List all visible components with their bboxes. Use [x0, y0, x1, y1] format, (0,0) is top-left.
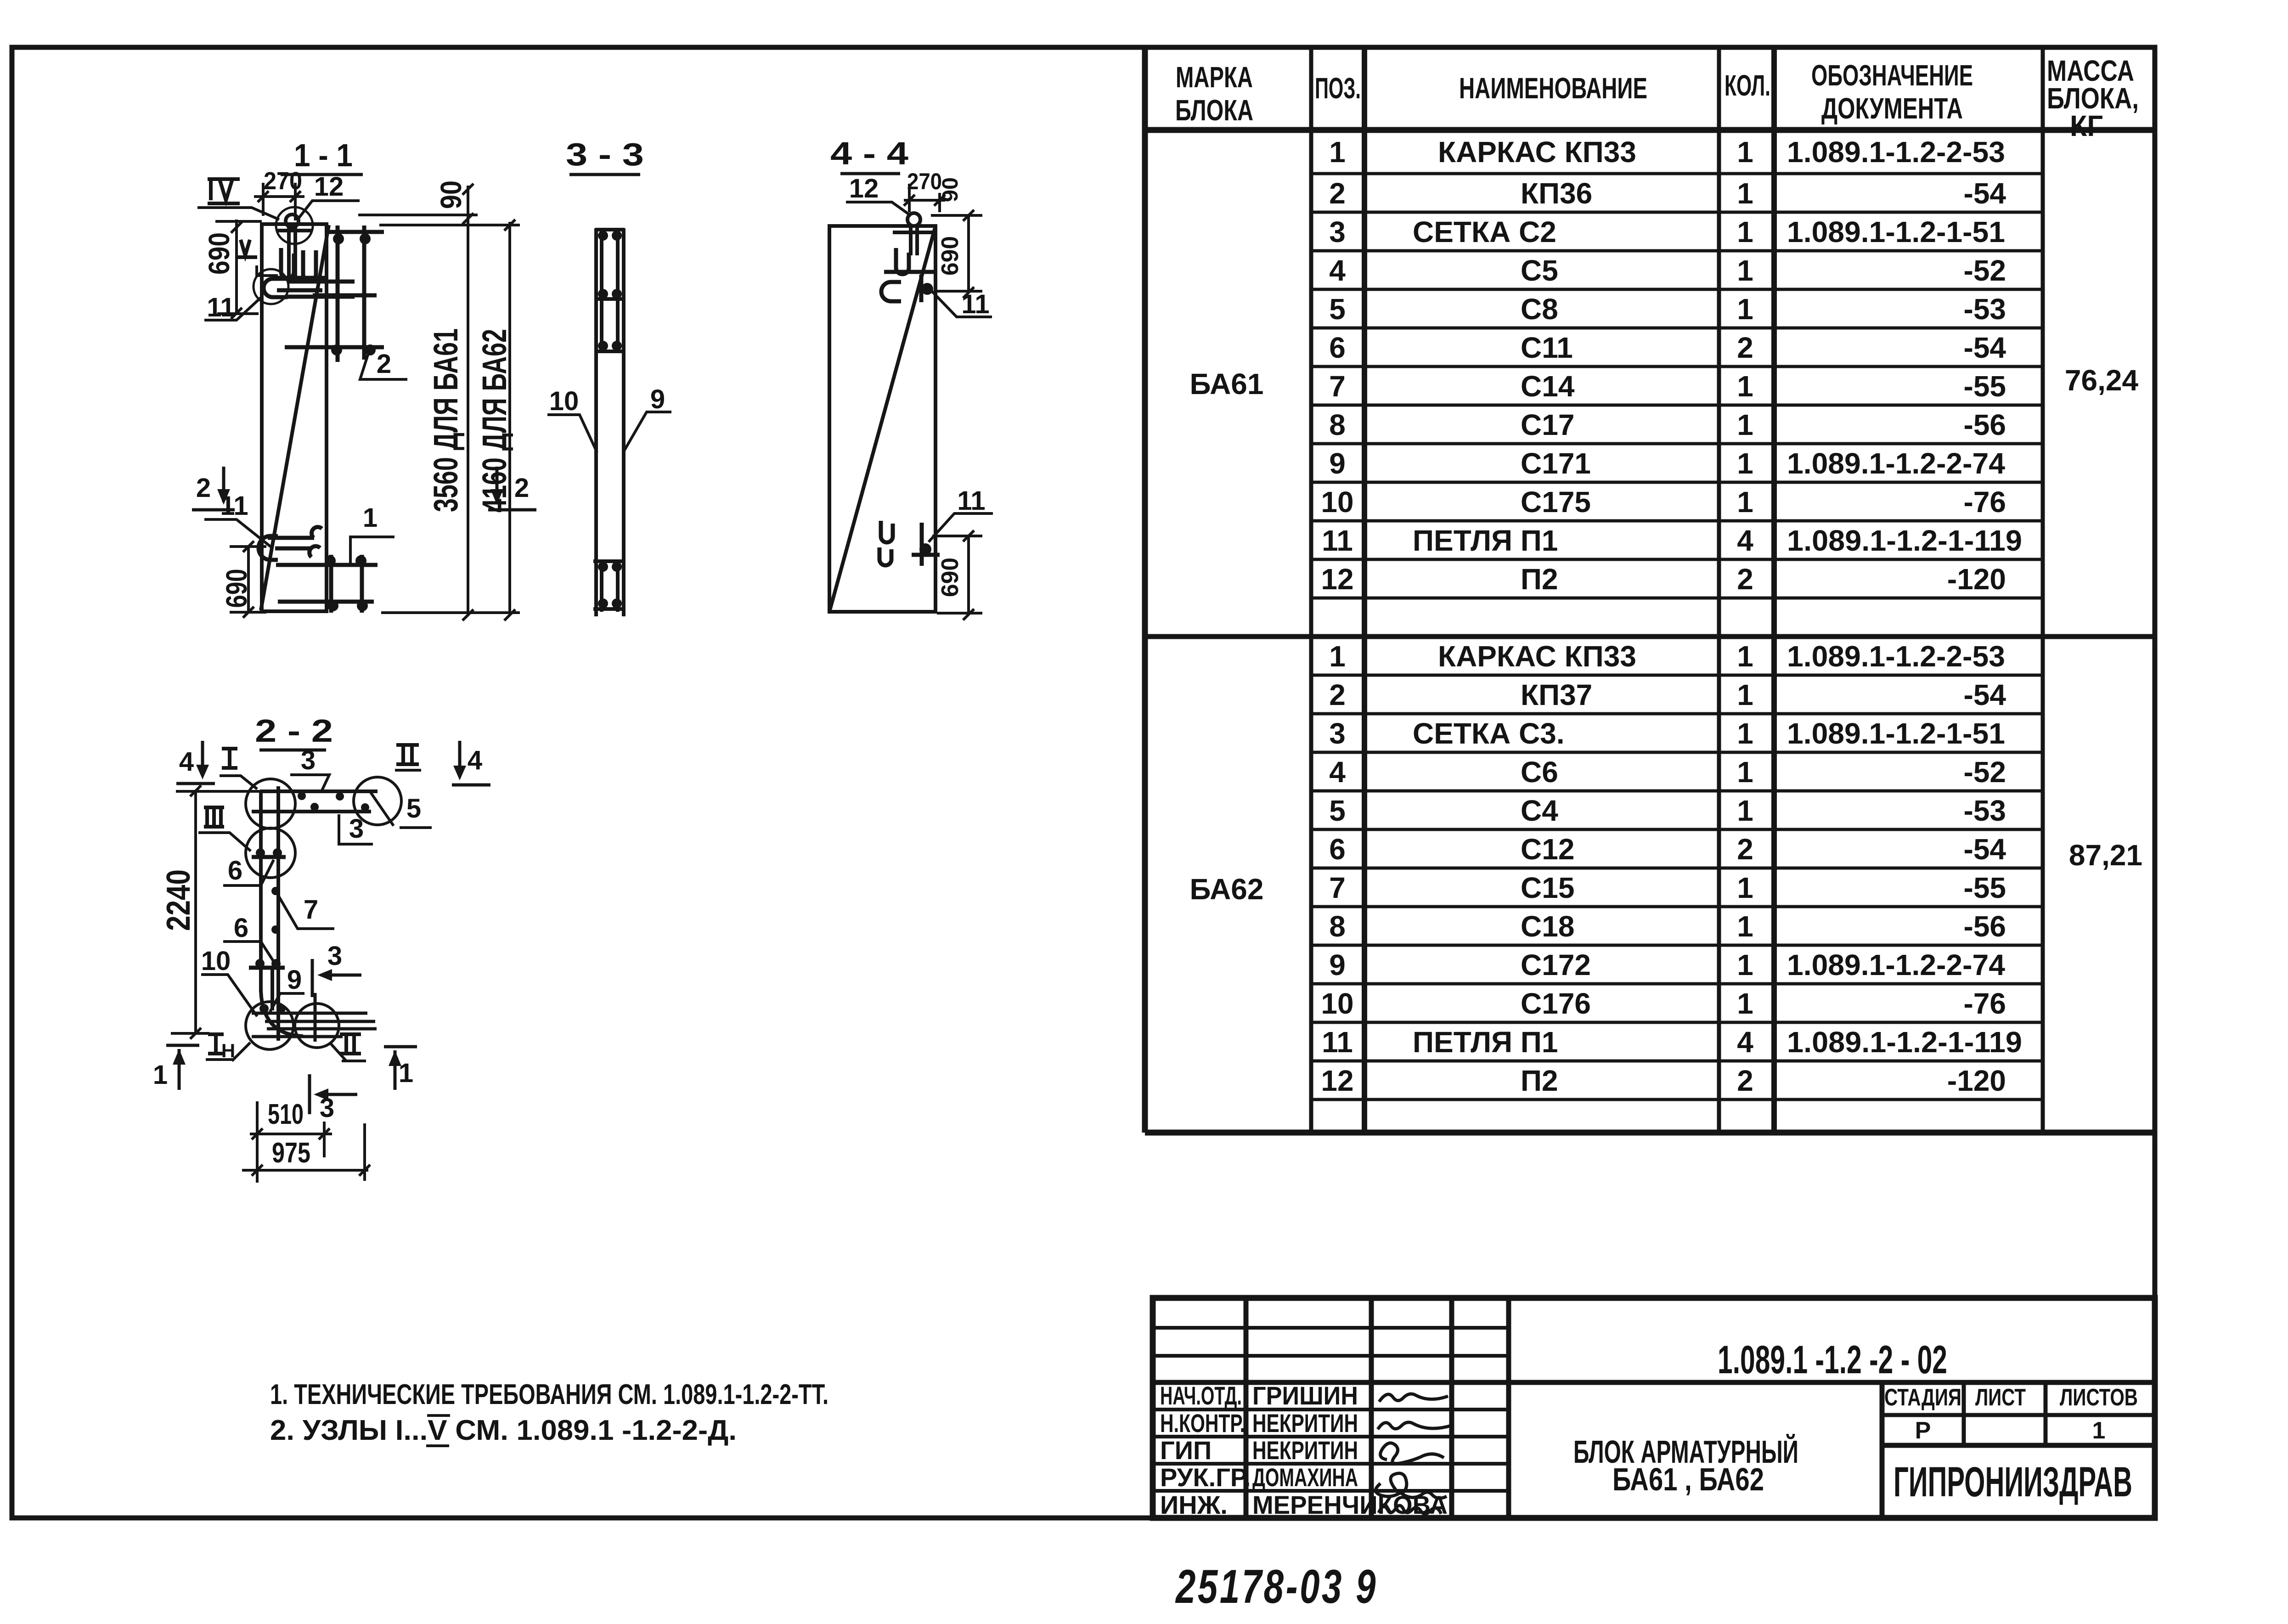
svg-text:ПЕТЛЯ П1: ПЕТЛЯ П1 [1413, 524, 1558, 557]
rebar carcass (lower) [268, 538, 378, 613]
svg-text:4: 4 [468, 745, 482, 775]
svg-text:975: 975 [272, 1137, 310, 1169]
svg-text:1: 1 [1737, 447, 1753, 480]
svg-text:1: 1 [1737, 135, 1753, 169]
svg-text:11: 11 [207, 293, 235, 322]
svg-text:ПЕТЛЯ П1: ПЕТЛЯ П1 [1413, 1026, 1558, 1059]
svg-text:БА61: БА61 [1190, 367, 1264, 400]
svg-text:1: 1 [1737, 177, 1753, 210]
bottom flange mesh lines [252, 993, 377, 1042]
web wire dots [271, 887, 280, 934]
svg-text:10: 10 [1321, 987, 1353, 1020]
svg-text:2: 2 [1737, 1064, 1753, 1097]
top flange outline [252, 786, 378, 1041]
svg-text:6: 6 [234, 913, 248, 943]
svg-text:1: 1 [153, 1060, 168, 1090]
svg-text:3: 3 [1329, 717, 1346, 750]
svg-text:1: 1 [2092, 1417, 2106, 1444]
svg-text:КП37: КП37 [1521, 678, 1592, 711]
label IV [208, 179, 240, 203]
svg-text:-54: -54 [1964, 678, 2006, 711]
svg-text:-120: -120 [1947, 563, 2006, 596]
svg-text:6: 6 [1329, 331, 1346, 364]
svg-text:6: 6 [1329, 833, 1346, 866]
svg-text:11: 11 [1322, 1026, 1353, 1059]
svg-text:1.089.1-1.2-2-74: 1.089.1-1.2-2-74 [1787, 948, 2005, 981]
svg-text:1: 1 [1737, 678, 1753, 711]
svg-text:12: 12 [1321, 1064, 1353, 1097]
svg-text:90: 90 [434, 180, 468, 209]
label V [237, 240, 257, 257]
panel diagonal [261, 225, 329, 610]
svg-text:2 - 2: 2 - 2 [255, 713, 333, 749]
svg-text:С6: С6 [1521, 756, 1558, 789]
detail circles [246, 777, 401, 1049]
title block text [1160, 1381, 1448, 1519]
svg-text:КАРКАС КП33: КАРКАС КП33 [1438, 640, 1636, 673]
svg-text:12: 12 [1321, 563, 1353, 596]
block labels and masses [1190, 364, 2143, 906]
detail circle pos11 [254, 269, 288, 304]
svg-text:2: 2 [377, 349, 391, 379]
svg-text:С14: С14 [1521, 370, 1575, 403]
svg-text:8: 8 [1329, 408, 1346, 441]
flange rebar dots [298, 792, 369, 812]
svg-text:ОБОЗНАЧЕНИЕ: ОБОЗНАЧЕНИЕ [1811, 59, 1973, 92]
svg-text:-54: -54 [1964, 177, 2006, 210]
svg-text:1: 1 [1737, 948, 1753, 981]
svg-text:-54: -54 [1964, 331, 2006, 364]
svg-text:ИНЖ.: ИНЖ. [1160, 1490, 1228, 1519]
svg-text:С172: С172 [1521, 948, 1591, 981]
label III [204, 807, 224, 827]
svg-text:-76: -76 [1964, 485, 2006, 519]
svg-text:-55: -55 [1964, 370, 2006, 403]
svg-text:КГ: КГ [2070, 109, 2103, 142]
svg-text:4: 4 [1329, 254, 1346, 287]
svg-text:СТАДИЯ: СТАДИЯ [1884, 1384, 1961, 1411]
svg-text:РУК.ГР.: РУК.ГР. [1160, 1463, 1251, 1492]
svg-text:ГИПРОНИИЗДРАВ: ГИПРОНИИЗДРАВ [1894, 1459, 2132, 1506]
svg-text:НАИМЕНОВАНИЕ: НАИМЕНОВАНИЕ [1459, 72, 1647, 105]
svg-text:Н.КОНТР.: Н.КОНТР. [1160, 1409, 1245, 1438]
svg-text:С5: С5 [1521, 254, 1558, 287]
svg-text:П2: П2 [1521, 1064, 1558, 1097]
svg-text:1: 1 [1737, 756, 1753, 789]
svg-text:9: 9 [1329, 447, 1346, 480]
svg-text:1.089.1-1.2-2-53: 1.089.1-1.2-2-53 [1787, 135, 2005, 169]
svg-text:3560 ДЛЯ БА61: 3560 ДЛЯ БА61 [427, 328, 465, 512]
stage/sheet header [1884, 1384, 2138, 1444]
svg-text:КАРКАС КП33: КАРКАС КП33 [1438, 135, 1636, 169]
svg-text:3: 3 [1329, 215, 1346, 248]
svg-text:-76: -76 [1964, 987, 2006, 1020]
svg-text:2: 2 [514, 473, 529, 503]
svg-text:ПОЗ.: ПОЗ. [1315, 72, 1361, 105]
label I top [222, 749, 237, 768]
svg-text:10: 10 [549, 386, 579, 416]
svg-text:1. ТЕХНИЧЕСКИЕ ТРЕБОВАНИЯ СМ.: 1. ТЕХНИЧЕСКИЕ ТРЕБОВАНИЯ СМ. 1.089.1-1.… [270, 1379, 828, 1410]
svg-text:-55: -55 [1964, 871, 2006, 904]
svg-text:2: 2 [1737, 331, 1753, 364]
svg-text:С17: С17 [1521, 408, 1574, 441]
svg-text:1: 1 [1737, 370, 1753, 403]
lifting loop P2 pos12 [277, 214, 312, 280]
rebar carcass 2 (upper) [285, 226, 384, 362]
svg-text:510: 510 [268, 1099, 304, 1130]
web tie rung 1 [252, 855, 286, 859]
svg-text:1.089.1-1.2-1-51: 1.089.1-1.2-1-51 [1787, 215, 2005, 248]
svg-text:2: 2 [1329, 177, 1346, 210]
svg-text:11: 11 [957, 486, 985, 516]
svg-text:С176: С176 [1521, 987, 1591, 1020]
svg-text:690: 690 [203, 232, 236, 275]
svg-text:4: 4 [1737, 524, 1753, 557]
svg-text:-120: -120 [1947, 1064, 2006, 1097]
svg-text:90: 90 [938, 177, 963, 202]
label In bottom [208, 1034, 224, 1054]
svg-text:С15: С15 [1521, 871, 1574, 904]
svg-text:3: 3 [349, 814, 364, 844]
label II top [396, 745, 419, 764]
svg-text:1.089.1-1.2-1-119: 1.089.1-1.2-1-119 [1787, 1026, 2022, 1059]
svg-text:8: 8 [1329, 910, 1346, 943]
detail circle on loop [276, 207, 313, 244]
svg-text:1: 1 [1329, 640, 1346, 673]
svg-text:9: 9 [287, 965, 302, 995]
svg-text:С175: С175 [1521, 485, 1591, 519]
svg-text:1: 1 [1737, 794, 1753, 827]
svg-text:1: 1 [1737, 485, 1753, 519]
svg-text:1: 1 [1737, 987, 1753, 1020]
svg-text:СЕТКА С2: СЕТКА С2 [1413, 215, 1556, 248]
title block grid [1153, 1298, 2155, 1518]
view 4-4 panel outline [829, 226, 935, 612]
svg-text:270: 270 [907, 169, 942, 194]
svg-text:1.089.1-1.2-2-53: 1.089.1-1.2-2-53 [1787, 640, 2005, 673]
svg-text:7: 7 [304, 895, 318, 925]
svg-text:1.089.1-1.2-2-74: 1.089.1-1.2-2-74 [1787, 447, 2005, 480]
parts table rows BA61 [1321, 135, 2022, 596]
svg-text:4: 4 [179, 747, 194, 777]
svg-text:ДОКУМЕНТА: ДОКУМЕНТА [1821, 92, 1963, 125]
svg-text:5: 5 [1329, 794, 1346, 827]
svg-text:С4: С4 [1521, 794, 1558, 827]
top rebar cage [595, 230, 625, 351]
svg-text:-56: -56 [1964, 910, 2006, 943]
svg-text:-54: -54 [1964, 833, 2006, 866]
parts table grid [1145, 47, 2155, 1133]
svg-text:СЕТКА С3.: СЕТКА С3. [1413, 717, 1565, 750]
parts table header text [1175, 54, 2139, 142]
svg-text:4 - 4: 4 - 4 [830, 135, 908, 171]
svg-text:1.089.1 -1.2 -2 - 02: 1.089.1 -1.2 -2 - 02 [1718, 1338, 1947, 1382]
bottom hooks P1 [879, 521, 940, 566]
svg-text:690: 690 [937, 558, 964, 597]
svg-text:12: 12 [314, 172, 344, 202]
svg-text:1: 1 [1737, 871, 1753, 904]
svg-text:10: 10 [1321, 485, 1353, 519]
svg-text:БА62: БА62 [1190, 873, 1264, 906]
svg-text:1: 1 [399, 1058, 413, 1088]
panel diagonal [829, 226, 935, 612]
svg-text:4: 4 [1329, 756, 1346, 789]
svg-text:11: 11 [220, 491, 248, 521]
svg-text:-52: -52 [1964, 756, 2006, 789]
mid vertical bar [271, 968, 274, 1010]
svg-text:2: 2 [1329, 678, 1346, 711]
svg-text:3: 3 [301, 745, 316, 775]
dim lines 3560/4160 [358, 184, 520, 620]
label II bottom [340, 1034, 361, 1054]
svg-text:НЕКРИТИН: НЕКРИТИН [1252, 1409, 1358, 1438]
svg-text:С171: С171 [1521, 447, 1591, 480]
svg-text:7: 7 [1329, 370, 1346, 403]
loop P1 pos11 bottom [259, 527, 322, 560]
svg-text:12: 12 [849, 174, 879, 203]
view 1-1 panel outline [261, 224, 329, 611]
svg-text:ГРИШИН: ГРИШИН [1252, 1381, 1358, 1410]
web tie rung 2 [249, 966, 285, 970]
svg-text:2. УЗЛЫ I...V СМ. 1.089.1 -1.2: 2. УЗЛЫ I...V СМ. 1.089.1 -1.2-2-Д. [270, 1415, 737, 1446]
svg-text:10: 10 [201, 946, 231, 976]
signatures [1375, 1394, 1451, 1514]
top hooks P1 [881, 248, 934, 302]
svg-text:1: 1 [1737, 717, 1753, 750]
svg-text:1: 1 [1737, 254, 1753, 287]
svg-text:2240: 2240 [160, 869, 197, 931]
svg-text:1: 1 [1737, 408, 1753, 441]
svg-text:КП36: КП36 [1521, 177, 1592, 210]
tie hook dots [325, 233, 376, 611]
svg-text:5: 5 [1329, 293, 1346, 326]
svg-text:87,21: 87,21 [2069, 839, 2142, 872]
svg-text:4: 4 [1737, 1026, 1753, 1059]
svg-text:ДОМАХИНА: ДОМАХИНА [1252, 1463, 1358, 1492]
svg-text:БА61 , БА62: БА61 , БА62 [1612, 1461, 1764, 1497]
svg-text:690: 690 [937, 236, 964, 276]
web outline [259, 791, 263, 992]
svg-text:11: 11 [961, 289, 989, 319]
svg-text:С18: С18 [1521, 910, 1574, 943]
svg-text:76,24: 76,24 [2065, 364, 2139, 397]
svg-text:9: 9 [1329, 948, 1346, 981]
svg-text:5: 5 [406, 794, 421, 823]
svg-text:БЛОКА: БЛОКА [1175, 94, 1253, 127]
technical notes [270, 1379, 828, 1446]
overline on V [427, 1414, 450, 1417]
svg-text:ЛИСТОВ: ЛИСТОВ [2060, 1384, 2138, 1411]
svg-text:6: 6 [228, 856, 242, 885]
svg-text:2: 2 [1737, 563, 1753, 596]
svg-text:ЛИСТ: ЛИСТ [1975, 1384, 2026, 1411]
svg-text:3 - 3: 3 - 3 [566, 136, 644, 172]
svg-text:МАРКА: МАРКА [1176, 61, 1253, 94]
svg-text:2: 2 [196, 473, 211, 503]
hook bars below loop [278, 248, 327, 281]
svg-text:7: 7 [1329, 871, 1346, 904]
parts table rows BA62 [1321, 640, 2022, 1097]
svg-text:1: 1 [1737, 640, 1753, 673]
svg-text:1: 1 [1329, 135, 1346, 169]
svg-text:С8: С8 [1521, 293, 1558, 326]
svg-text:11: 11 [1322, 524, 1353, 557]
svg-text:1: 1 [1737, 215, 1753, 248]
cage node dots [598, 231, 622, 609]
svg-text:4160 ДЛЯ БА62: 4160 ДЛЯ БА62 [475, 329, 513, 513]
svg-text:С11: С11 [1521, 331, 1573, 364]
svg-text:НЕКРИТИН: НЕКРИТИН [1252, 1436, 1358, 1465]
svg-text:1: 1 [363, 503, 378, 533]
svg-text:П2: П2 [1521, 563, 1558, 596]
panel strip outline [596, 228, 624, 616]
svg-text:С12: С12 [1521, 833, 1574, 866]
svg-text:2: 2 [1737, 833, 1753, 866]
svg-text:1 - 1: 1 - 1 [294, 137, 353, 173]
svg-text:НАЧ.ОТД.: НАЧ.ОТД. [1160, 1381, 1242, 1410]
svg-text:-56: -56 [1964, 408, 2006, 441]
svg-text:1: 1 [1737, 293, 1753, 326]
svg-text:1.089.1-1.2-1-51: 1.089.1-1.2-1-51 [1787, 717, 2005, 750]
bottom rebar cage [593, 561, 626, 612]
svg-text:-53: -53 [1964, 293, 2006, 326]
svg-text:3: 3 [327, 941, 342, 971]
svg-text:9: 9 [650, 384, 665, 414]
svg-text:КОЛ.: КОЛ. [1724, 69, 1770, 102]
svg-text:-52: -52 [1964, 254, 2006, 287]
svg-text:Р: Р [1915, 1417, 1931, 1444]
svg-text:-53: -53 [1964, 794, 2006, 827]
svg-text:1.089.1-1.2-1-119: 1.089.1-1.2-1-119 [1787, 524, 2022, 557]
top loop P2 [893, 213, 934, 255]
loop P1 pos11 top [264, 279, 355, 297]
svg-text:ГИП: ГИП [1160, 1436, 1212, 1465]
svg-text:1: 1 [1737, 910, 1753, 943]
svg-text:25178-03 9: 25178-03 9 [1175, 1560, 1378, 1613]
